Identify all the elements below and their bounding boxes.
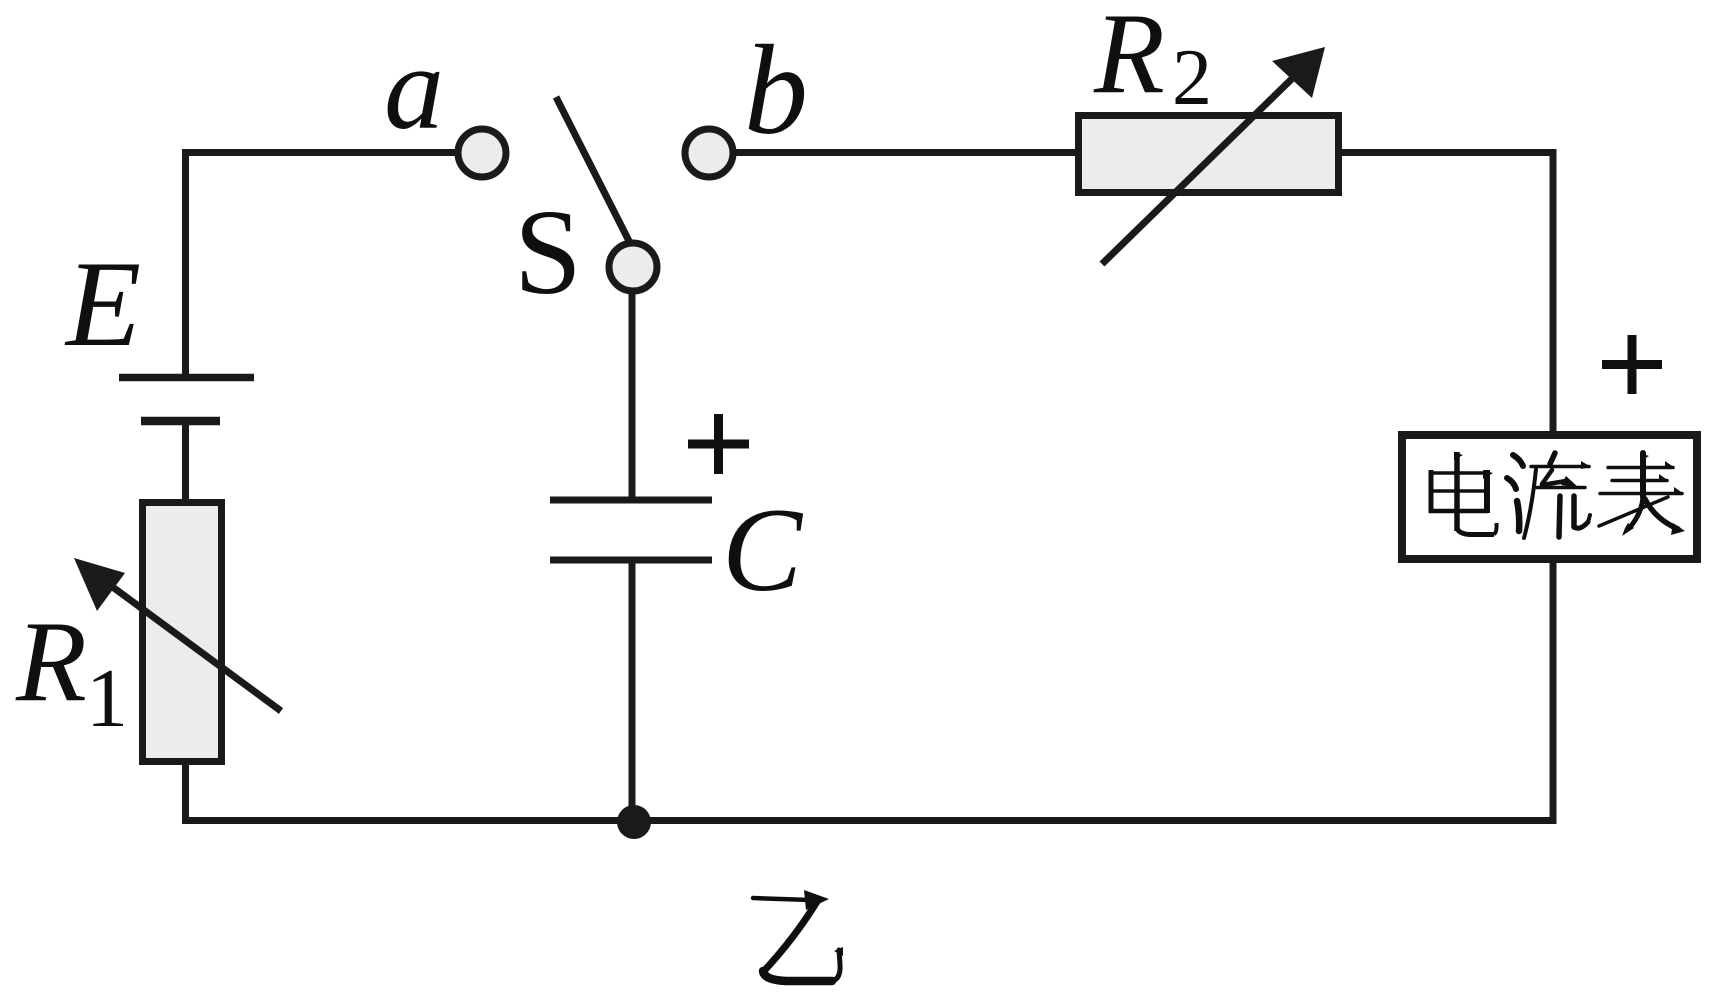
- svg-text:R: R: [15, 598, 87, 726]
- svg-text:2: 2: [1172, 34, 1212, 122]
- wire switch to capacitor: [629, 291, 636, 500]
- wire bottom horizontal: [182, 817, 1557, 824]
- wire capacitor to junction: [629, 560, 636, 821]
- wire battery to R1: [182, 421, 189, 502]
- resistor R2 arrow: [1102, 47, 1325, 264]
- svg-text:b: b: [744, 19, 808, 161]
- svg-text:1: 1: [86, 652, 128, 745]
- terminal a: [458, 129, 506, 177]
- capacitor C bottom plate: [550, 557, 712, 564]
- ammeter label liu (flow): [1507, 453, 1591, 538]
- capacitor plus polarity mark: [688, 414, 749, 474]
- resistor R1 arrow: [74, 558, 281, 711]
- svg-text:C: C: [722, 483, 804, 616]
- terminal b: [685, 129, 733, 177]
- wire R2 to right corner: [1339, 149, 1557, 156]
- wire right vertical (corner to ammeter): [1550, 149, 1557, 435]
- ammeter box: [1402, 435, 1697, 559]
- wire left vertical (top corner down to battery): [182, 149, 189, 378]
- caption yi (diagram B): [753, 890, 843, 981]
- ammeter label biao (meter): [1599, 453, 1685, 536]
- wire b to R2: [735, 149, 1076, 156]
- wire R1 to bottom-left corner: [182, 761, 189, 824]
- battery E short plate (negative): [141, 417, 220, 426]
- resistor R1 body: [143, 503, 222, 762]
- svg-text:a: a: [384, 21, 444, 154]
- svg-text:S: S: [514, 185, 582, 320]
- switch S blade: [556, 97, 630, 243]
- resistor R2 body: [1079, 116, 1339, 193]
- switch S pivot circle: [609, 243, 657, 291]
- battery E long plate (positive): [119, 374, 254, 382]
- wire ammeter to bottom-right corner: [1550, 559, 1557, 824]
- ammeter plus polarity mark: [1602, 335, 1662, 394]
- wire top-left horizontal (E to terminal a): [182, 149, 456, 156]
- capacitor C top plate: [550, 497, 712, 504]
- ammeter label dian (electric): [1429, 452, 1497, 535]
- svg-text:E: E: [64, 235, 141, 372]
- node junction dot: [617, 805, 651, 839]
- svg-text:R: R: [1093, 0, 1165, 118]
